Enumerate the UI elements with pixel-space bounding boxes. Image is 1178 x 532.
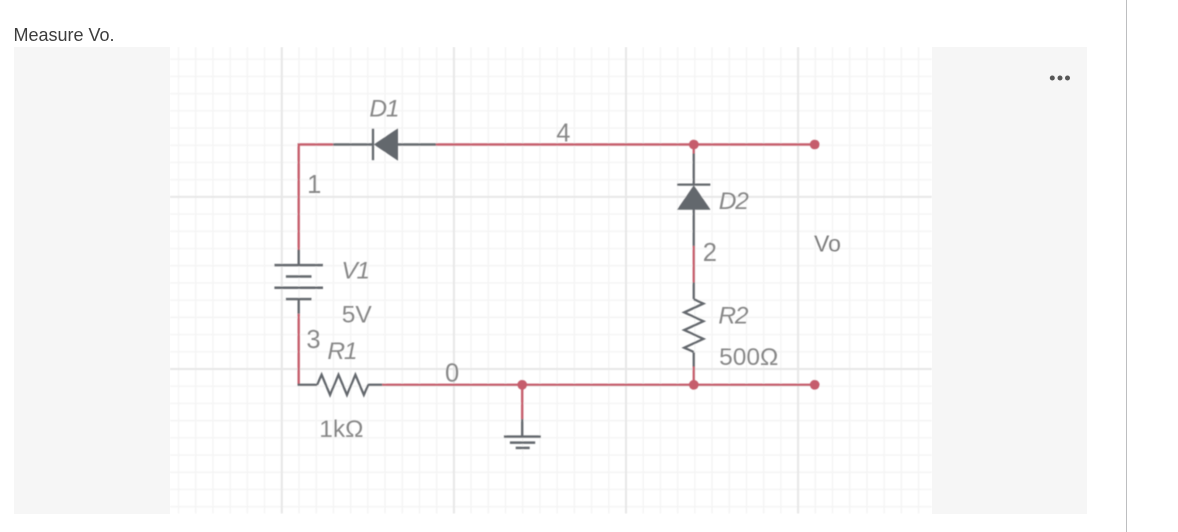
resistor R2 top lead bbox=[692, 283, 694, 300]
right divider line bbox=[1126, 0, 1127, 532]
diode D1 cathode bar bbox=[372, 129, 374, 161]
junction node net4/D2 bbox=[689, 140, 699, 150]
svg-text:R2: R2 bbox=[718, 303, 748, 330]
wire stub above D2 bbox=[692, 145, 694, 154]
wire R2 bottom bbox=[692, 367, 694, 385]
panel bbox=[14, 47, 1087, 514]
title text bbox=[14, 25, 115, 46]
resistor R2 zigzag bbox=[684, 299, 703, 352]
wire net 1 horizontal (corner to D1) bbox=[297, 143, 333, 145]
diode D1 triangle bbox=[374, 128, 398, 161]
ground bar 2 bbox=[510, 441, 535, 444]
svg-text:4: 4 bbox=[556, 120, 570, 148]
battery V1 short plate 1 bbox=[286, 275, 312, 278]
ground bar 3 bbox=[515, 447, 529, 450]
wire net 3 (battery to R1) bbox=[297, 314, 299, 386]
resistor R1 zigzag bbox=[317, 375, 368, 395]
svg-text:0: 0 bbox=[445, 359, 459, 387]
battery V1 long plate 2 bbox=[274, 287, 323, 290]
endpoint node top right bbox=[810, 140, 820, 150]
wire net 2 (D2 to R2) bbox=[692, 246, 694, 283]
ground bar 1 bbox=[504, 435, 541, 438]
svg-text:V1: V1 bbox=[341, 258, 369, 285]
battery V1 bottom lead bbox=[297, 299, 299, 314]
diode D2 cathode bar bbox=[677, 183, 710, 185]
wire ground stub bbox=[521, 385, 523, 419]
diode D2 bottom lead bbox=[692, 209, 694, 246]
ground lead bbox=[521, 419, 523, 437]
svg-text:D1: D1 bbox=[369, 95, 398, 122]
svg-text:D2: D2 bbox=[719, 188, 749, 215]
svg-text:R1: R1 bbox=[327, 338, 356, 365]
junction node R2/net0 bbox=[689, 380, 699, 390]
resistor R1 left lead bbox=[297, 384, 317, 386]
canvas with grid bbox=[170, 47, 932, 514]
wire net 1 vertical (left rail) bbox=[297, 145, 299, 251]
resistor R2 bottom lead bbox=[692, 352, 694, 366]
svg-text:500Ω: 500Ω bbox=[719, 344, 778, 371]
junction node ground bbox=[517, 380, 527, 390]
diode D1 right lead bbox=[397, 143, 435, 145]
svg-text:1: 1 bbox=[307, 171, 321, 199]
resistor R1 right lead bbox=[368, 384, 382, 386]
menu dots bbox=[1048, 72, 1074, 84]
svg-text:3: 3 bbox=[306, 326, 320, 354]
diode D1 left lead bbox=[333, 143, 373, 145]
diode D2 top lead bbox=[692, 154, 694, 185]
endpoint node bottom right bbox=[810, 380, 820, 390]
wire net 0 (bottom rail) bbox=[382, 384, 815, 386]
battery V1 short plate 2 bbox=[286, 298, 312, 301]
battery V1 long plate 1 bbox=[274, 264, 323, 267]
svg-text:5V: 5V bbox=[341, 302, 372, 329]
svg-text:Vo: Vo bbox=[814, 231, 841, 257]
wire net 4 (D1 to endpoint) bbox=[436, 143, 815, 145]
battery V1 top lead bbox=[297, 250, 299, 265]
svg-text:1kΩ: 1kΩ bbox=[319, 416, 363, 443]
svg-text:2: 2 bbox=[702, 239, 716, 267]
diode D2 triangle bbox=[677, 185, 711, 210]
